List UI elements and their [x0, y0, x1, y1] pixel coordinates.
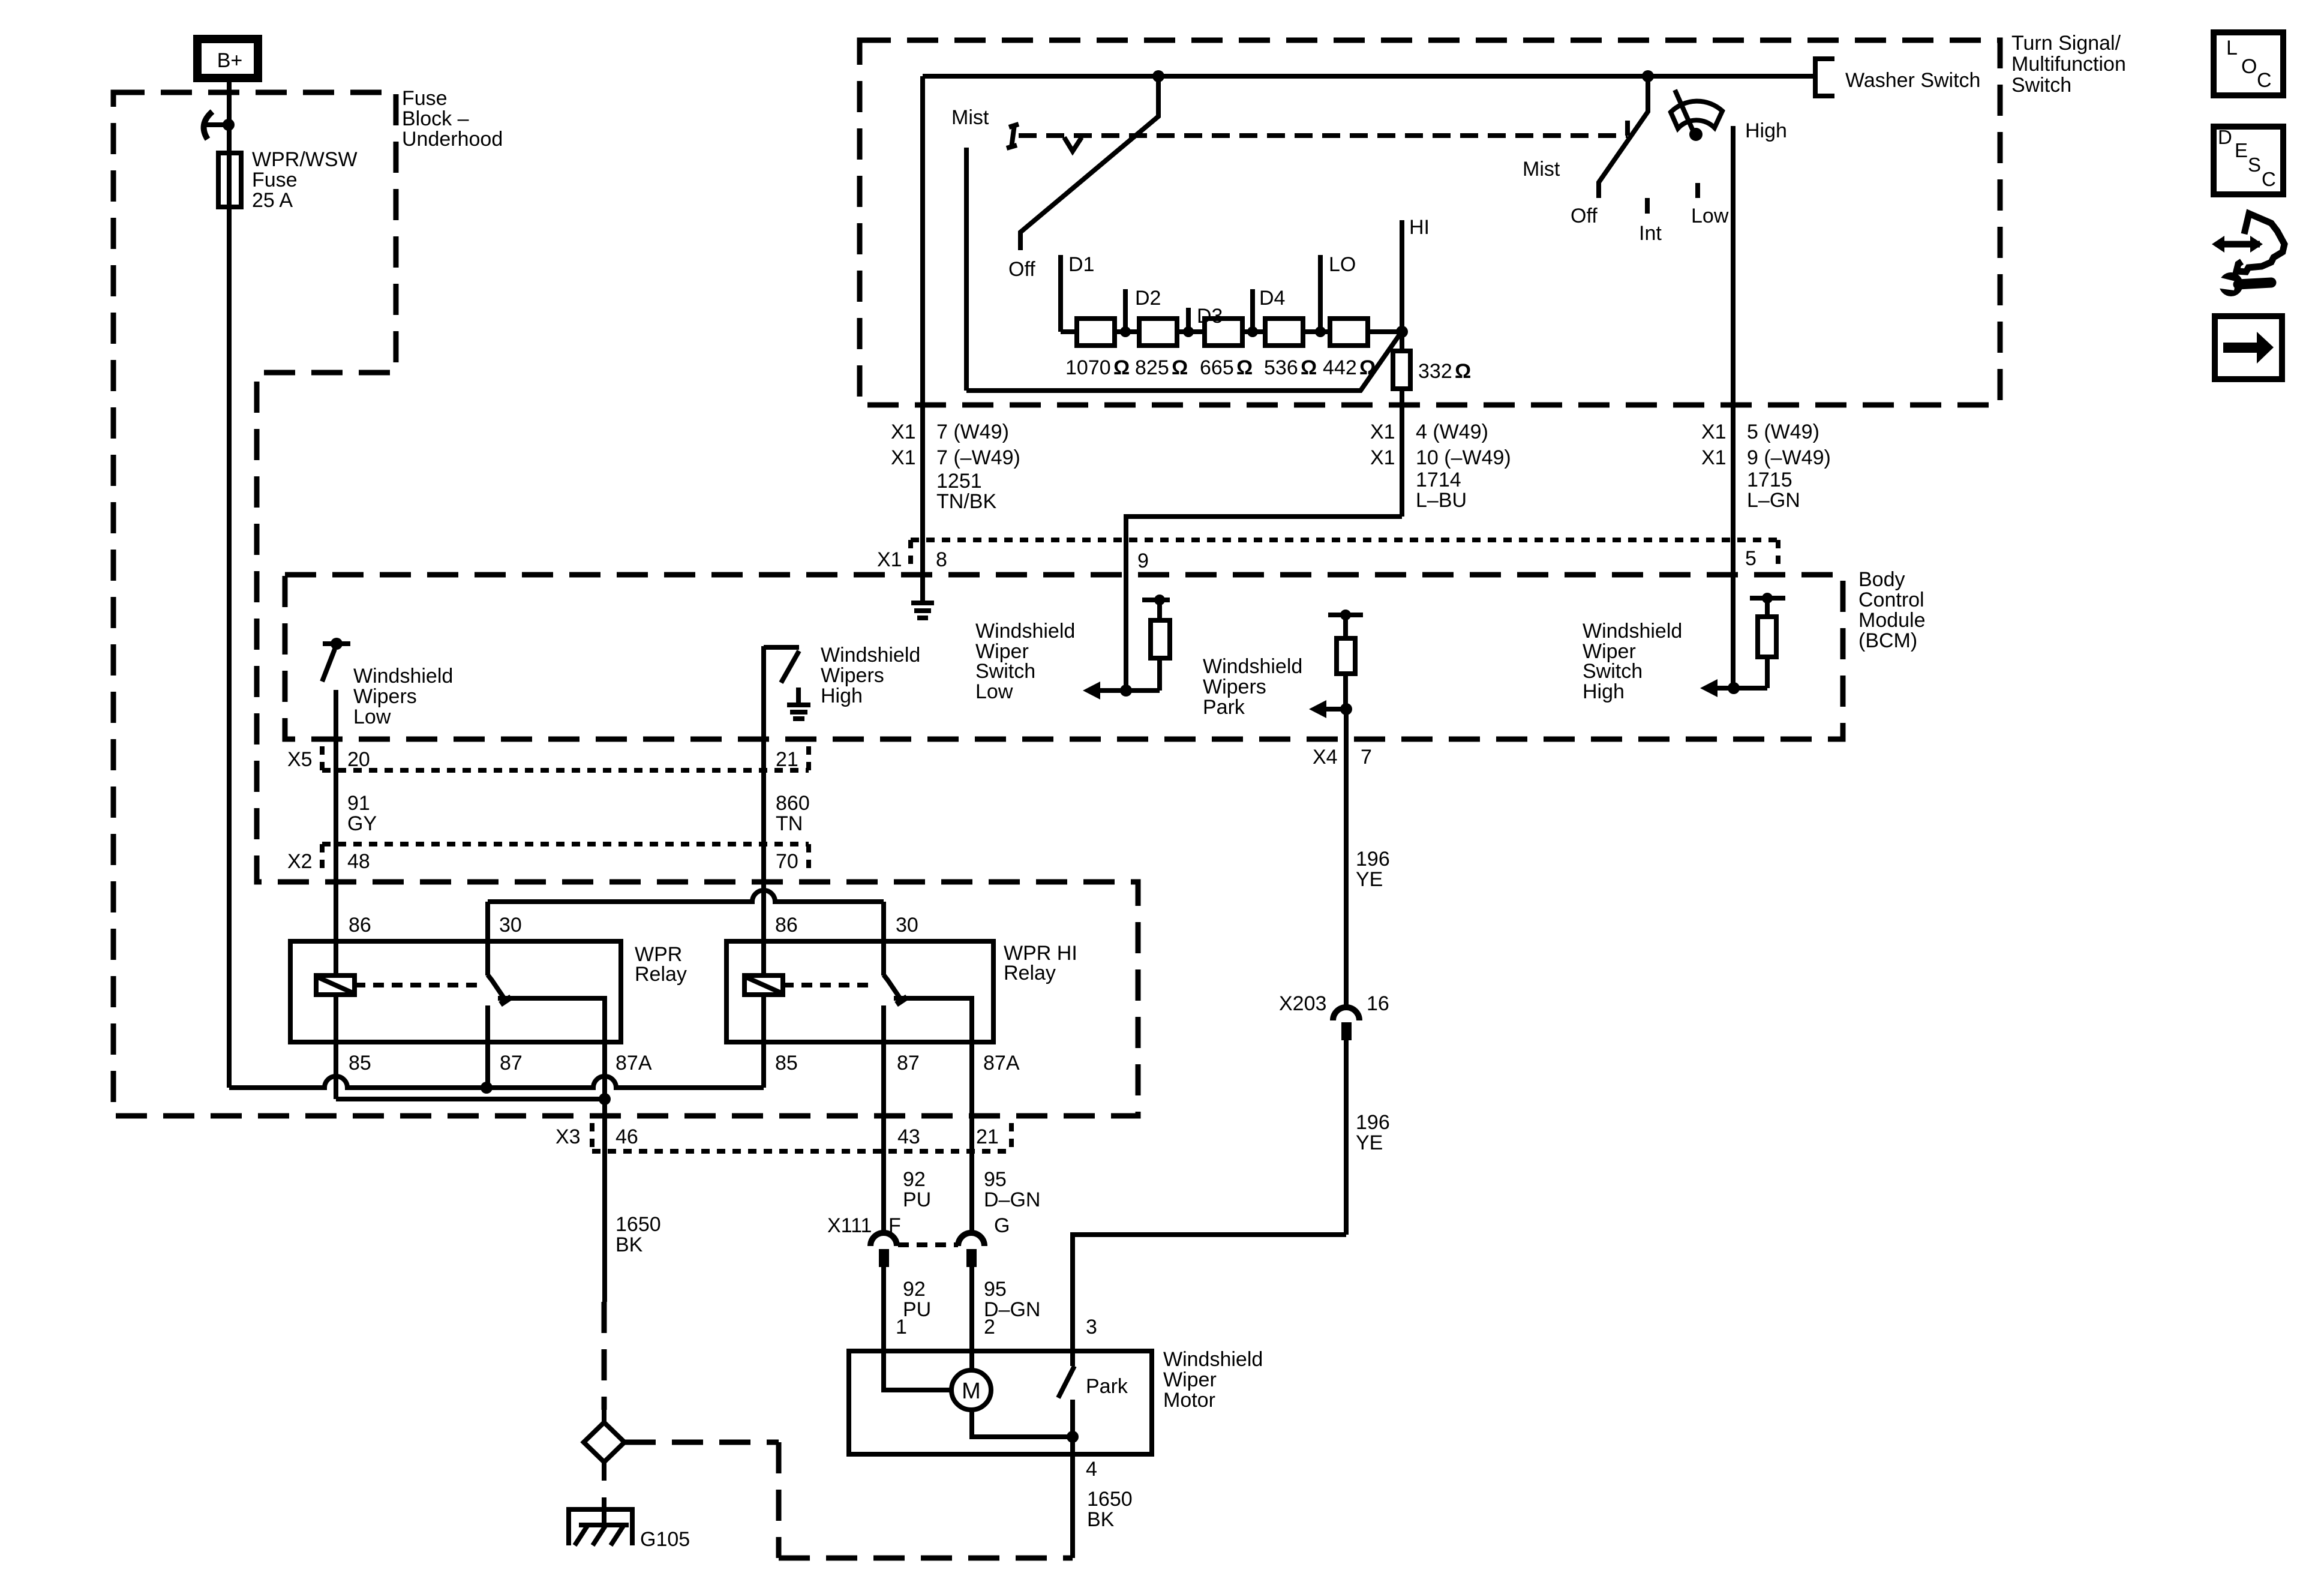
svg-text:30: 30 [896, 914, 918, 936]
svg-text:1714: 1714 [1416, 469, 1461, 491]
svg-text:Park: Park [1203, 696, 1245, 719]
svg-text:G105: G105 [640, 1528, 690, 1551]
svg-text:C: C [2257, 69, 2272, 92]
svg-text:4: 4 [1086, 1458, 1097, 1481]
svg-text:WPR/WSW: WPR/WSW [252, 148, 358, 171]
svg-text:Underhood: Underhood [402, 128, 503, 151]
svg-text:196: 196 [1356, 1111, 1390, 1134]
svg-text:87: 87 [500, 1052, 523, 1074]
svg-text:Switch: Switch [1583, 660, 1643, 683]
svg-text:X5: X5 [287, 748, 313, 771]
svg-text:Control: Control [1858, 589, 1924, 611]
svg-text:BK: BK [615, 1233, 643, 1256]
svg-text:825: 825 [1135, 356, 1169, 379]
svg-text:High: High [1745, 119, 1787, 142]
svg-text:Ω: Ω [1301, 356, 1317, 379]
svg-text:E: E [2235, 139, 2248, 161]
svg-text:D: D [2218, 126, 2232, 148]
svg-text:86: 86 [349, 914, 371, 936]
svg-text:D3: D3 [1197, 305, 1223, 328]
svg-text:Off: Off [1571, 205, 1598, 227]
svg-text:Windshield: Windshield [1203, 655, 1302, 678]
svg-text:Turn Signal/: Turn Signal/ [2011, 32, 2121, 55]
svg-text:LO: LO [1329, 253, 1356, 276]
svg-text:Windshield: Windshield [1163, 1348, 1263, 1371]
svg-text:7 (W49): 7 (W49) [936, 421, 1009, 443]
svg-text:Park: Park [1086, 1375, 1128, 1398]
svg-text:HI: HI [1409, 216, 1430, 239]
svg-text:Motor: Motor [1163, 1389, 1215, 1412]
svg-text:X203: X203 [1279, 992, 1326, 1015]
svg-text:X1: X1 [891, 446, 916, 469]
svg-text:9: 9 [1137, 550, 1149, 572]
svg-text:Windshield: Windshield [1583, 620, 1682, 643]
svg-text:Windshield: Windshield [353, 665, 453, 688]
svg-text:20: 20 [347, 748, 370, 771]
svg-text:1650: 1650 [615, 1213, 661, 1236]
svg-text:87A: 87A [983, 1052, 1020, 1074]
svg-text:4 (W49): 4 (W49) [1416, 421, 1488, 443]
svg-text:92: 92 [903, 1168, 926, 1191]
svg-text:7: 7 [1361, 746, 1372, 769]
svg-text:7 (–W49): 7 (–W49) [936, 446, 1020, 469]
svg-text:10 (–W49): 10 (–W49) [1416, 446, 1511, 469]
svg-text:Ω: Ω [1172, 356, 1188, 379]
svg-text:X111: X111 [827, 1214, 872, 1237]
svg-text:30: 30 [499, 914, 522, 936]
svg-text:X1: X1 [1701, 421, 1727, 443]
svg-text:Washer Switch: Washer Switch [1845, 69, 1980, 92]
svg-text:Switch: Switch [2011, 74, 2071, 97]
svg-text:Switch: Switch [975, 660, 1035, 683]
svg-text:1: 1 [896, 1316, 907, 1338]
svg-text:Windshield: Windshield [821, 644, 920, 667]
svg-text:D2: D2 [1135, 287, 1161, 310]
svg-text:Wipers: Wipers [821, 664, 884, 687]
svg-text:Mist: Mist [1523, 158, 1560, 181]
svg-text:Wipers: Wipers [353, 685, 417, 708]
svg-text:X1: X1 [1701, 446, 1727, 469]
svg-text:Int: Int [1639, 222, 1662, 245]
svg-text:2: 2 [984, 1316, 995, 1338]
svg-text:G: G [994, 1214, 1010, 1237]
svg-text:Module: Module [1858, 609, 1926, 632]
svg-text:87A: 87A [615, 1052, 652, 1074]
svg-text:X2: X2 [287, 850, 313, 873]
svg-text:Wiper: Wiper [1163, 1368, 1217, 1391]
svg-text:D4: D4 [1259, 287, 1285, 310]
svg-text:1251: 1251 [936, 470, 982, 493]
svg-text:85: 85 [775, 1052, 798, 1074]
svg-text:91: 91 [347, 792, 370, 815]
svg-text:332: 332 [1418, 360, 1452, 383]
svg-text:BK: BK [1087, 1508, 1115, 1531]
svg-text:95: 95 [984, 1278, 1007, 1301]
svg-text:9 (–W49): 9 (–W49) [1747, 446, 1831, 469]
svg-text:X4: X4 [1313, 746, 1338, 769]
svg-text:D1: D1 [1068, 253, 1094, 276]
svg-text:YE: YE [1356, 1131, 1383, 1154]
svg-text:TN/BK: TN/BK [936, 490, 996, 513]
svg-text:87: 87 [897, 1052, 920, 1074]
svg-text:1070: 1070 [1065, 356, 1111, 379]
svg-text:48: 48 [347, 850, 370, 873]
svg-text:Ω: Ω [1113, 356, 1130, 379]
svg-text:92: 92 [903, 1278, 926, 1301]
svg-text:86: 86 [775, 914, 798, 936]
svg-text:YE: YE [1356, 868, 1383, 891]
svg-text:Low: Low [353, 706, 391, 728]
svg-text:L: L [2226, 37, 2238, 59]
svg-text:PU: PU [903, 1298, 931, 1321]
svg-text:Low: Low [975, 680, 1013, 703]
svg-text:536: 536 [1264, 356, 1298, 379]
svg-text:X1: X1 [891, 421, 916, 443]
svg-text:85: 85 [349, 1052, 371, 1074]
svg-text:Fuse: Fuse [252, 169, 298, 191]
svg-text:3: 3 [1086, 1316, 1097, 1338]
svg-text:Fuse: Fuse [402, 87, 448, 110]
svg-text:Relay: Relay [635, 963, 687, 986]
svg-text:Multifunction: Multifunction [2011, 53, 2126, 76]
svg-text:Body: Body [1858, 568, 1905, 591]
svg-text:M: M [962, 1379, 981, 1404]
svg-text:Ω: Ω [1236, 356, 1253, 379]
svg-text:X3: X3 [556, 1125, 581, 1148]
svg-text:X1: X1 [1370, 446, 1395, 469]
svg-text:46: 46 [615, 1125, 638, 1148]
svg-text:High: High [1583, 680, 1625, 703]
svg-text:Relay: Relay [1004, 962, 1056, 984]
svg-text:Off: Off [1008, 258, 1035, 281]
svg-text:X1: X1 [877, 548, 902, 571]
svg-text:442: 442 [1323, 356, 1357, 379]
svg-text:L–GN: L–GN [1747, 489, 1800, 512]
svg-text:D–GN: D–GN [984, 1188, 1040, 1211]
svg-text:Mist: Mist [951, 106, 989, 129]
svg-text:25 A: 25 A [252, 189, 293, 212]
svg-text:X1: X1 [1370, 421, 1395, 443]
svg-text:95: 95 [984, 1168, 1007, 1191]
svg-text:8: 8 [936, 548, 947, 571]
svg-text:Block –: Block – [402, 107, 469, 130]
svg-text:TN: TN [776, 812, 803, 835]
svg-text:21: 21 [776, 748, 798, 771]
svg-text:Wipers: Wipers [1203, 676, 1266, 698]
svg-text:665: 665 [1200, 356, 1234, 379]
svg-text:High: High [821, 685, 863, 707]
svg-text:1650: 1650 [1087, 1488, 1133, 1511]
svg-text:860: 860 [776, 792, 810, 815]
svg-text:O: O [2241, 55, 2257, 78]
svg-text:PU: PU [903, 1188, 931, 1211]
svg-text:Ω: Ω [1455, 360, 1471, 383]
svg-text:C: C [2262, 168, 2276, 190]
svg-text:43: 43 [897, 1125, 920, 1148]
svg-text:16: 16 [1367, 992, 1389, 1015]
svg-text:Low: Low [1691, 205, 1729, 227]
svg-text:Windshield: Windshield [975, 620, 1075, 643]
svg-text:21: 21 [976, 1125, 999, 1148]
svg-text:1715: 1715 [1747, 469, 1792, 491]
svg-text:B+: B+ [217, 49, 243, 72]
svg-text:70: 70 [776, 850, 798, 873]
svg-text:5: 5 [1745, 547, 1756, 570]
svg-text:S: S [2248, 154, 2261, 176]
svg-text:5 (W49): 5 (W49) [1747, 421, 1819, 443]
svg-text:GY: GY [347, 812, 377, 835]
svg-text:L–BU: L–BU [1416, 489, 1467, 512]
svg-text:(BCM): (BCM) [1858, 629, 1917, 652]
svg-text:196: 196 [1356, 848, 1390, 870]
